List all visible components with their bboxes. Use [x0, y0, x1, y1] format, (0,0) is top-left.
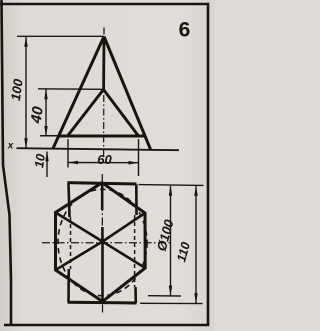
top view pyramid edge to top vertex: [101, 183, 104, 242]
top view rectangle right edge hidden dashed part: [134, 215, 136, 287]
svg-text:10: 10: [32, 153, 48, 169]
front view apex vertical edge: [102, 37, 105, 90]
extension line top of 100: [17, 35, 104, 37]
top view rectangle top edge: [68, 183, 137, 184]
front view centerline: [103, 28, 105, 158]
dimension 60 arrows: [68, 161, 139, 165]
front view inner triangle: [59, 90, 145, 137]
extension line top of 40: [38, 88, 104, 91]
top view pyramid edge to lower-right vertex: [103, 242, 146, 269]
dimension 40 arrows: [44, 89, 48, 136]
top view rectangle right edge solid parts: [136, 184, 137, 303]
top view rectangle left edge hidden dashed part: [70, 217, 72, 269]
top view hexagon: [56, 183, 146, 302]
dimension 110 line: [195, 186, 197, 303]
dashed circle diameter 100: [58, 189, 147, 295]
extension line base of inner triangle: [40, 135, 60, 137]
x axis line: [17, 148, 180, 150]
dimension 100 arrows: [24, 37, 28, 148]
border frame: [0, 0, 208, 325]
dimension 100 line: [25, 37, 27, 148]
top view pyramid edge to upper-right vertex: [103, 213, 146, 242]
top view rectangle left edge solid parts: [69, 183, 70, 302]
extension lines of 60: [68, 139, 139, 176]
svg-text:x: x: [7, 141, 14, 152]
top view horizontal centerline: [42, 242, 171, 244]
svg-text:100: 100: [8, 77, 26, 101]
dimension 60 line: [68, 162, 139, 164]
dimension diameter 100 line: [170, 186, 172, 296]
top view vertical centerline: [101, 174, 103, 313]
svg-text:60: 60: [97, 152, 112, 167]
top view pyramid edge to upper-left vertex: [56, 213, 103, 242]
svg-text:6: 6: [179, 19, 191, 42]
top view pyramid edge to lower-left vertex: [56, 242, 103, 271]
svg-text:40: 40: [28, 105, 47, 126]
bottom extension line for 110: [140, 302, 203, 304]
dimension 10 arrow: [45, 151, 49, 161]
dimension diameter 100 arrows: [169, 186, 173, 296]
shared top extension line for 110 and diameter 100: [139, 184, 204, 187]
bottom extension line for diameter 100: [148, 295, 181, 297]
dimension 10 line: [46, 152, 48, 178]
top view pyramid edge to bottom vertex: [101, 242, 104, 302]
dimension 110 arrows: [194, 186, 198, 303]
front view outer triangle: [53, 37, 151, 150]
dimension 40 line: [45, 89, 47, 136]
top view rectangle bottom edge: [68, 301, 137, 305]
